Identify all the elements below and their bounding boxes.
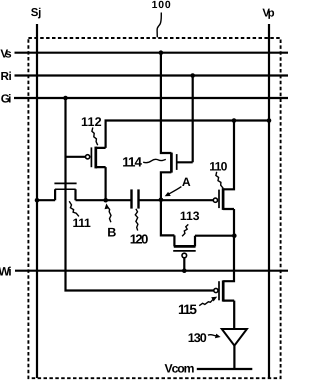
leader for 114 [143, 159, 166, 163]
gate bar of 112 [90, 147, 92, 167]
wire Gi scan line [14, 97, 288, 99]
leader for 110 [216, 172, 223, 189]
svg-text:100: 100 [152, 0, 171, 11]
capacitor 120 plate left [130, 189, 132, 208]
wire 112 drain to Vp rail [106, 121, 269, 148]
leader arrow for 130 [208, 335, 217, 337]
wire node line A segment [140, 199, 214, 201]
wire Ri scan line [15, 74, 289, 76]
transistor 114 body and leads [161, 53, 172, 200]
gate bubble of 112 [86, 155, 90, 159]
node dot wire119 at Vp [267, 118, 272, 123]
wire inverter output to Vcom [233, 346, 235, 369]
gate bar of 114 [176, 154, 178, 170]
node dot wire119 at right rail [232, 118, 237, 123]
wire 114 gate to Ri [177, 76, 193, 163]
transistor 112 channel [94, 147, 97, 169]
arrow for A [169, 187, 182, 195]
leader for 120 [135, 209, 138, 231]
transistor 115 channel [222, 280, 225, 301]
gate bar of 115 [218, 281, 220, 300]
node dot on Ri for 114 gate [190, 73, 195, 78]
svg-text:B: B [107, 226, 116, 240]
gate bubble of 110 [213, 198, 217, 202]
transistor 110 channel [222, 188, 225, 210]
wire node line B segment [76, 199, 131, 201]
node A dot [159, 198, 164, 203]
node B dot [103, 198, 108, 203]
transistor 111 channel [55, 188, 76, 190]
svg-text:Vcom: Vcom [165, 362, 195, 376]
transistor 111 gate bar [54, 182, 76, 184]
node dot on Vs for 114 [159, 50, 164, 55]
svg-text:114: 114 [122, 155, 142, 170]
transistor 113 leads [161, 200, 234, 247]
svg-text:111: 111 [73, 216, 92, 230]
svg-text:Sj: Sj [31, 7, 42, 19]
inverter U130 triangle [222, 329, 247, 346]
wire right rail from Vp branch through 110 and 115 [223, 121, 234, 330]
wire Wi scan line [15, 270, 288, 272]
svg-text:Vp: Vp [262, 8, 274, 20]
node dot on Sj for 111 [35, 198, 40, 203]
leader for 100 [157, 13, 161, 38]
wire gate branch to 112 [66, 156, 86, 158]
transistor 111 leads [37, 189, 76, 200]
svg-text:120: 120 [130, 232, 149, 247]
wire Vp supply line [268, 24, 270, 378]
leader for 112 [92, 128, 98, 146]
svg-text:130: 130 [188, 331, 207, 345]
transistor 112 leads [96, 148, 106, 200]
leader for 113 [182, 224, 188, 236]
svg-text:A: A [182, 175, 191, 189]
gate bar of 110 [218, 190, 220, 209]
wire gate rail from Gi down to 115 gate [66, 98, 214, 291]
svg-text:Wi: Wi [0, 264, 12, 278]
leader for 111 [69, 201, 79, 216]
arrow for B [108, 207, 111, 222]
wire Sj data line [36, 24, 38, 378]
svg-text:Gi: Gi [1, 92, 12, 105]
svg-text:Ri: Ri [1, 70, 12, 83]
svg-text:113: 113 [180, 209, 200, 223]
gate bubble of 115 [214, 288, 218, 292]
wire Vs scan line [15, 52, 289, 54]
node dot 113 drain at right rail [232, 233, 237, 238]
leader arrow for 115 [199, 299, 213, 306]
svg-text:110: 110 [209, 159, 227, 173]
wire Vcom terminal [197, 368, 253, 370]
node dot on Gi for gate rail [63, 96, 68, 101]
capacitor 120 plate right [137, 189, 139, 208]
transistor 114 channel [170, 153, 173, 173]
svg-text:115: 115 [178, 302, 197, 317]
pixel boundary dashed box 100 [28, 38, 280, 378]
transistor 113 channel [174, 245, 196, 248]
svg-text:Vs: Vs [0, 47, 12, 60]
svg-text:112: 112 [81, 115, 102, 129]
wire 113 gate to Wi [183, 258, 185, 271]
gate bubble of 113 [182, 253, 187, 258]
gate bar of 113 [173, 250, 196, 252]
node dot on Wi for 113 gate [182, 268, 187, 273]
